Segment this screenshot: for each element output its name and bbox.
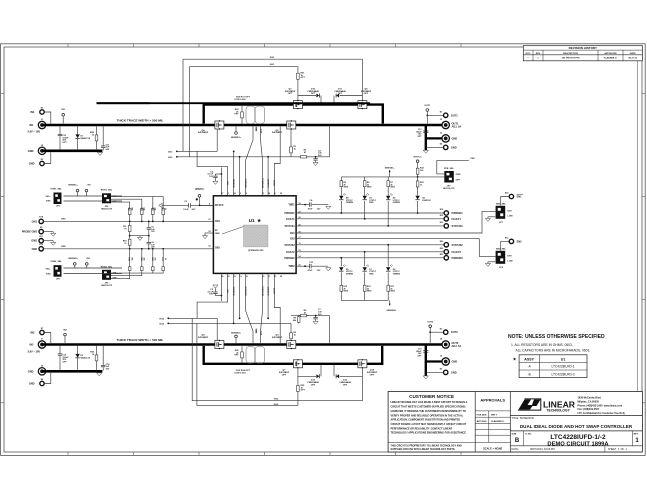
wires JP4 to ladder [111, 197, 163, 205]
wire JP6 lower [64, 273, 123, 275]
resistor R1B [90, 126, 98, 149]
svg-text:EN1: EN1 [290, 233, 295, 235]
labels R10 R11 OPT [234, 97, 250, 102]
pin 21 ON1 [208, 219, 220, 223]
sense resistor R24s (stadium) [255, 346, 265, 363]
wire IN2 pin fan [197, 273, 228, 318]
junction C2 tap [221, 295, 223, 297]
svg-text:STATUS1: STATUS1 [452, 224, 464, 228]
test point IN2 left [86, 258, 91, 268]
svg-text:-B: -B [528, 372, 531, 376]
svg-text:Milpitas, CA 95035: Milpitas, CA 95035 [578, 400, 600, 403]
svg-text:B: B [515, 438, 520, 444]
test point SENSE2+ left [68, 258, 78, 268]
resistor R4 47 [298, 309, 309, 317]
terminal E7 IN2 [30, 328, 44, 335]
drawing frame inner border [4, 47, 642, 452]
svg-text:SENSE1+: SENSE1+ [262, 177, 264, 188]
svg-text:INTVCC: INTVCC [215, 205, 224, 207]
resistor R22 OPT [234, 106, 243, 124]
svg-text:08/07/2013, 04:06 PM: 08/07/2013, 04:06 PM [530, 448, 555, 451]
svg-text:PFB_SEL: PFB_SEL [444, 168, 455, 170]
svg-text:DG1: DG1 [270, 57, 275, 59]
svg-text:DATE: DATE [630, 52, 636, 55]
stub D11 anode to rail [333, 96, 335, 104]
svg-text:PCB DES.: PCB DES. [477, 414, 488, 416]
svg-text:EXT: EXT [508, 255, 513, 257]
resistor R17 90k ladder1 [128, 205, 133, 222]
svg-text:SENSE2+: SENSE2+ [387, 310, 398, 312]
svg-text:R12: R12 [161, 207, 163, 210]
U1 top pin numbers [221, 177, 283, 194]
svg-text:50V: 50V [192, 209, 196, 211]
svg-text:FAULT2: FAULT2 [286, 251, 295, 254]
svg-text:SENSE2+: SENSE2+ [231, 332, 242, 334]
svg-text:THICK TRACE WIDTH > 500 MIL: THICK TRACE WIDTH > 500 MIL [117, 338, 164, 342]
svg-text:R15: R15 [151, 207, 153, 210]
svg-text:08-27-13: 08-27-13 [628, 58, 638, 60]
svg-text:SiR158DP: SiR158DP [272, 132, 283, 134]
wire STATUS1 [296, 225, 444, 227]
ground JP2 [485, 262, 495, 267]
capacitor C12 OUT1 [416, 129, 429, 138]
capacitor C9 0.1uF [208, 171, 222, 184]
terminal J1 IN1 [29, 119, 45, 129]
U1 pad diagonal pointer [222, 227, 244, 235]
terminal E18 ON1 [32, 217, 44, 224]
svg-text:PERFORMANCE OR RELIABILITY. C: PERFORMANCE OR RELIABILITY. CONTACT LINE… [391, 427, 453, 430]
wire IN1 pin fan [197, 151, 228, 195]
svg-text:ON2: ON2 [32, 247, 38, 251]
svg-text:SMAJ17A: SMAJ17A [80, 357, 90, 360]
wire SENSE2- pin [246, 273, 253, 343]
svg-text:FAULT1: FAULT1 [286, 218, 295, 221]
svg-text:EN1_SEL: EN1_SEL [496, 203, 506, 205]
test point OUT1 [424, 105, 431, 116]
resistor R14 10k [414, 157, 425, 178]
terminal E14 EN1 [505, 192, 523, 199]
label HG1 left [168, 156, 291, 159]
ground EP pin [202, 233, 207, 239]
terminal E21 PWRGD2 [440, 254, 464, 260]
wire HGATE1 pin [267, 157, 269, 196]
resistor R23 1k [416, 177, 424, 191]
svg-text:IN1: IN1 [30, 110, 35, 114]
op-amp U1 body [213, 196, 296, 274]
svg-text:SENSE1+: SENSE1+ [68, 184, 78, 186]
svg-text:REV.: REV. [634, 433, 639, 435]
svg-text:R16: R16 [140, 207, 142, 210]
wire TMR2 [296, 265, 309, 267]
svg-text:APP ENG.: APP ENG. [477, 420, 488, 423]
svg-text:DUAL IDEAL DIODE AND HOT SWAP: DUAL IDEAL DIODE AND HOT SWAP CONTROLLER [520, 424, 633, 429]
capacitor C10 47nF TMR2 [308, 262, 331, 272]
svg-text:HG1: HG1 [168, 157, 173, 159]
svg-text:GND: GND [215, 233, 220, 235]
ground JP1 [485, 217, 495, 222]
diode D2 SMAJ17A [75, 346, 90, 370]
svg-text:EN2: EN2 [517, 239, 523, 243]
wire HG2 to R4 node [291, 315, 330, 317]
svg-text:OPT: OPT [234, 114, 239, 116]
svg-text:SiR158DP: SiR158DP [198, 337, 209, 339]
node SENSE1+ LED bus [341, 167, 417, 177]
svg-text:OFF: OFF [456, 180, 461, 182]
test point OUT2 [427, 321, 434, 333]
svg-text:DESCRIPTION: DESCRIPTION [563, 53, 578, 55]
wire E7 to thick trace 2 [44, 333, 51, 344]
svg-text:R20: R20 [140, 257, 142, 260]
svg-text:QFN38UFD-4X5: QFN38UFD-4X5 [248, 249, 264, 252]
svg-text:LINEAR TECHNOLOGY HAS MADE A B: LINEAR TECHNOLOGY HAS MADE A BEST EFFORT… [391, 401, 468, 404]
svg-text:THIS CIRCUIT IS PROPRIETARY TO: THIS CIRCUIT IS PROPRIETARY TO LINEAR TE… [391, 444, 463, 447]
svg-text:SENSE1+: SENSE1+ [231, 137, 242, 139]
svg-text:LTC4228IUFD-1/-2: LTC4228IUFD-1/-2 [550, 434, 606, 441]
terminal J8 GND [28, 366, 46, 375]
resistor R7 2k [387, 177, 396, 191]
ground PROBE GND [43, 232, 56, 237]
right margin column line [637, 61, 639, 392]
svg-text:STATUS2: STATUS2 [284, 244, 295, 247]
svg-text:SMAJ17A: SMAJ17A [80, 137, 90, 140]
node SENSE2+ LED bus [341, 300, 397, 312]
wire SENSE1a pin [239, 156, 241, 196]
customer notice block [388, 394, 475, 451]
svg-text:INTVCC: INTVCC [414, 157, 423, 159]
revision history table [523, 46, 642, 61]
svg-text:HD2X3-079: HD2X3-079 [101, 285, 113, 287]
terminal E20 FAULT2 [440, 248, 462, 254]
svg-text:GND: GND [29, 382, 35, 386]
label DG2 left [160, 323, 292, 326]
wire CPO2 pin [220, 273, 222, 301]
transistor Q9 SiR158DP [272, 335, 296, 350]
wire HGATE2 pin [267, 273, 269, 318]
resistor R30 1k [90, 346, 98, 370]
resistor R20b 43k ladder2 [140, 248, 146, 271]
svg-text:R17: R17 [128, 207, 130, 210]
svg-text:DG2: DG2 [160, 323, 165, 325]
svg-text:EN1: EN1 [517, 195, 523, 199]
svg-text:GND: GND [28, 149, 34, 153]
svg-text:OUT2: OUT2 [427, 321, 434, 323]
svg-text:CIRCUIT THAT MEETS CUSTOMER-S: CIRCUIT THAT MEETS CUSTOMER-SUPPLIED SPE… [391, 406, 466, 409]
resistor R13 1k ladder2 [161, 248, 166, 271]
capacitor C13 [58, 126, 69, 149]
title block outline [388, 392, 642, 453]
svg-text:Fax: (408)434-0507: Fax: (408)434-0507 [578, 408, 600, 411]
svg-text:REV: REV [536, 53, 541, 55]
Linear Technology logo [518, 399, 576, 413]
wire E13 to JP2 [501, 241, 510, 250]
svg-text:SENSE1-: SENSE1- [246, 178, 248, 188]
svg-text:OUT2: OUT2 [451, 330, 458, 334]
wire CPO1 pin [220, 168, 222, 196]
svg-text:INTVCC: INTVCC [195, 188, 204, 191]
svg-text:U1 ★: U1 ★ [249, 218, 262, 223]
ground OUT1 rail [423, 150, 428, 153]
capacitor C11 [97, 103, 150, 151]
svg-text:SiR158DP: SiR158DP [198, 132, 209, 134]
label HG2 left [160, 317, 218, 320]
terminal E8 GND [29, 379, 44, 386]
svg-text:FAULT2: FAULT2 [452, 250, 462, 254]
svg-text:ON2: ON2 [61, 246, 66, 248]
svg-text:VS2+: VS2+ [45, 269, 51, 271]
svg-text:TMR2: TMR2 [288, 266, 295, 268]
jumper JP1 EN1_SEL [496, 203, 514, 224]
thick upper OPT rail ch1 [204, 105, 383, 124]
svg-text:TMR1: TMR1 [288, 205, 295, 207]
ground at input gnd bus ch1 [97, 152, 102, 155]
resistor R11 7k [123, 221, 131, 235]
jumper JP3 VON1_SEL [45, 189, 62, 208]
svg-text:VS1+: VS1+ [45, 196, 51, 198]
terminal J2 OUT1 ADJ 5A [440, 119, 462, 129]
terminal J7 IN2 [29, 339, 45, 348]
svg-text:STATUS2: STATUS2 [452, 243, 464, 247]
svg-text:ON1: ON1 [61, 219, 66, 221]
capacitor C4 47nF TMR1 [308, 199, 331, 210]
transistor Q7 SiR158DP OPT [279, 359, 303, 376]
jumper JP4 RON1_SEL [101, 190, 118, 211]
resistor R21 1k OPT [297, 71, 306, 101]
diode D11 CMHD4448 OPT [334, 88, 362, 97]
resistor R12 1k ladder1 [161, 205, 166, 222]
wire SENSE1- pin [246, 126, 253, 195]
svg-text:2.9V – 18V: 2.9V – 18V [27, 349, 40, 353]
diode D10 CMHD4448 OPT [298, 88, 320, 97]
svg-text:SIZE: SIZE [512, 433, 517, 435]
svg-text:PWRGD2: PWRGD2 [452, 256, 464, 260]
terminal E11 FAULT1 [440, 215, 462, 221]
wire OUT1 pin [274, 126, 280, 195]
svg-text:PROBE GND: PROBE GND [22, 231, 37, 234]
svg-text:OUT1: OUT1 [451, 113, 458, 117]
svg-text:DGATE1: DGATE1 [233, 178, 236, 187]
svg-text:GREEN: GREEN [346, 273, 354, 275]
svg-text:OUT1: OUT1 [424, 105, 431, 107]
capacitor C5 1uF [147, 221, 156, 236]
svg-text:2.9V – 18V: 2.9V – 18V [27, 130, 40, 134]
test point SENSE1+ ch1 [231, 126, 242, 138]
wire Q8 gate [216, 318, 218, 340]
sense resistor R13s (stadium) [246, 346, 255, 363]
resistor R18 7k [123, 236, 131, 249]
svg-text:MW T.: MW T. [491, 414, 498, 416]
test point IN1 left [85, 184, 91, 196]
svg-text:50V: 50V [318, 314, 322, 316]
svg-text:47nF: 47nF [308, 207, 314, 210]
svg-text:OPT: OPT [62, 361, 67, 363]
diode D12 CMHD4448 OPT [298, 374, 320, 386]
svg-text:CN2: CN2 [470, 158, 475, 160]
junction HGATE2-HG2 [267, 317, 269, 319]
svg-text:SENSE1+: SENSE1+ [385, 167, 396, 169]
svg-text:HG2: HG2 [274, 399, 279, 401]
U1 bottom pin numbers [221, 276, 283, 296]
svg-text:ALL CAPACITORS ARE IN MICROFAR: ALL CAPACITORS ARE IN MICROFARADS, 0603. [516, 349, 591, 353]
logo address text [578, 397, 626, 415]
transistor Q8 SiR158DP [198, 335, 224, 350]
wire OUT1 tp to E1 [427, 114, 443, 116]
terminal J6 GND [440, 356, 457, 365]
net DG2 bottom run long [197, 323, 298, 405]
test point IN1 [61, 109, 65, 123]
wire OUT2 junction [429, 332, 431, 343]
resistor R15 2k [340, 282, 349, 301]
wire DGATE2 pin [233, 273, 235, 323]
terminal J4 OUT2 ADJ 5A [440, 337, 462, 348]
sense resistor R11 (stadium) [255, 106, 265, 124]
svg-text:0.5W 0.003: 0.5W 0.003 [234, 372, 246, 374]
diode D13 CMHD4448 OPT [336, 374, 362, 386]
svg-text:GND: GND [452, 360, 458, 364]
junction HGATE1-HG1 [267, 156, 269, 158]
terminal E4 GND [440, 142, 457, 149]
terminal E1 OUT1 [440, 111, 459, 117]
terminal E3 OUT2 [440, 328, 459, 334]
svg-text:HOWEVER, IT REMAINS THE CUSTO: HOWEVER, IT REMAINS THE CUSTOMER'S RESPO… [391, 410, 466, 413]
svg-text:SENSE2+: SENSE2+ [68, 258, 78, 260]
svg-text:CIRCUIT BOARD LAYOUT MAY SIGNI: CIRCUIT BOARD LAYOUT MAY SIGNIFICANTLY A… [391, 423, 467, 426]
net HG2 bottom run long [192, 318, 362, 400]
net HG1 top run [190, 64, 298, 157]
wire SENSE1+ pin [261, 126, 263, 195]
svg-text:50V: 50V [318, 155, 322, 157]
svg-text:0.5W 0.003: 0.5W 0.003 [234, 99, 246, 101]
wire to E6 GND [426, 371, 444, 373]
stub D12 cathode to rail [320, 365, 322, 376]
svg-text:R21: R21 [151, 257, 153, 260]
wire SENSE2a pin [239, 273, 241, 319]
capacitor C2 0.1uF [208, 285, 222, 296]
pin 16 ON2 [208, 246, 220, 250]
svg-text:PWRGD1: PWRGD1 [452, 211, 464, 215]
terminal E10 PWRGD1 [440, 209, 464, 215]
terminal E6 GND [440, 369, 457, 375]
svg-text:TITLE: SCHEMATIC: TITLE: SCHEMATIC [512, 417, 535, 420]
svg-text:RED: RED [369, 273, 374, 275]
terminal E9b PROBE GND [22, 227, 44, 234]
wire Q6 gate with R1 [290, 129, 297, 157]
label R20 sense value ch1 [255, 127, 258, 133]
jumper JP6 VON2_SEL [45, 261, 62, 280]
labels R13 R24 OPT [234, 369, 250, 375]
wire LED bus to JP7 [418, 176, 445, 178]
svg-text:OPT: OPT [364, 93, 369, 95]
jumper JP5 RON2_SEL [101, 266, 118, 287]
resistor R2 47 [298, 150, 309, 158]
svg-text:LTC Confidential-For Customer: LTC Confidential-For Customer Use Only [578, 412, 626, 415]
wire E14 to JP1 [501, 197, 510, 206]
capacitor C16 OUT2 [416, 349, 429, 358]
LED D9 LTST-C GREEN [339, 257, 353, 282]
svg-text:PWRGD2: PWRGD2 [285, 258, 296, 260]
svg-text:47nF: 47nF [308, 269, 314, 272]
resistor R6 2k [363, 177, 372, 191]
sense resistor R10 (stadium) [246, 106, 255, 124]
wire E2 to gnd bus [44, 152, 51, 163]
mid node gnd wire [129, 235, 150, 241]
svg-text:16V: 16V [209, 176, 213, 178]
svg-text:OPT: OPT [338, 93, 343, 95]
svg-text:EXT: EXT [508, 210, 513, 212]
thick gnd bus ch2 [42, 370, 102, 373]
jumper JP7 PFB_SEL [443, 168, 461, 190]
terminal E11b GND [31, 236, 44, 243]
svg-text:APPROVED: APPROVED [604, 52, 617, 55]
thick trace IN2 rail [42, 343, 442, 346]
junction DGATE1-DG1 [233, 151, 235, 153]
transistor Q5 SiR158DP OPT [358, 88, 372, 109]
svg-text:OPT: OPT [343, 384, 348, 386]
LED D6 LTST-C GREEN [386, 244, 400, 282]
wire PWRGD1 [296, 212, 444, 214]
svg-text:CUSTOMER NOTICE: CUSTOMER NOTICE [409, 394, 454, 399]
svg-text:ON1: ON1 [215, 221, 220, 223]
svg-text:GND: GND [456, 174, 461, 176]
wire FAULT1 [296, 218, 444, 220]
wire C7 node to thick trace 2 [329, 316, 331, 344]
wire E5 to thick trace [44, 112, 51, 124]
net DG1 top run [183, 57, 362, 152]
svg-text:STATUS1: STATUS1 [284, 225, 295, 228]
svg-text:OPT: OPT [282, 374, 287, 376]
svg-text:OPT: OPT [311, 384, 316, 386]
svg-text:50V: 50V [106, 369, 110, 371]
thick wire to J6 GND [426, 360, 442, 362]
resistor R25r 1k OPT [297, 368, 306, 394]
wire EN1 to JP1 [296, 211, 496, 233]
svg-text:LTC4228IUFD-1: LTC4228IUFD-1 [552, 365, 575, 369]
wires JP5 to ladder2 [111, 271, 163, 278]
svg-text:ON1: ON1 [32, 219, 38, 223]
thick wire to J3 GND [426, 137, 442, 139]
svg-text:RED: RED [369, 202, 374, 204]
svg-text:EN2: EN2 [290, 239, 295, 241]
LED D5 LTST-C GREEN [339, 191, 353, 214]
test point SENSE2+ ch2 [231, 332, 242, 343]
svg-text:OPT: OPT [62, 142, 67, 144]
svg-text:GREEN: GREEN [346, 202, 354, 204]
junction C9 tap [221, 173, 223, 175]
test point INTVCC ch1 [195, 188, 204, 206]
svg-text:ASSY: ASSY [524, 357, 534, 361]
capacitor C15 [58, 346, 69, 370]
svg-text:IN2: IN2 [29, 343, 34, 347]
svg-text:DG1: DG1 [168, 151, 173, 153]
svg-text:VON1_SEL: VON1_SEL [50, 189, 62, 191]
capacitor C4 1nF [313, 149, 322, 165]
wire OUT2 tp to E3 [430, 331, 443, 333]
svg-text:NOTE: UNLESS OTHERWISE SPECIFI: NOTE: UNLESS OTHERWISE SPECIFIED [508, 334, 605, 340]
wire E8 to gnd bus 2 [44, 373, 51, 384]
U1 right pin names [284, 203, 301, 268]
svg-text:SHEET 1 OF 1: SHEET 1 OF 1 [608, 448, 627, 451]
wire DGATE1 pin [233, 151, 235, 195]
svg-text:OUT1: OUT1 [274, 179, 276, 186]
wire Q9 gate with R3 [290, 323, 297, 340]
wire ON1 [43, 219, 213, 222]
svg-text:GREEN: GREEN [393, 273, 401, 275]
terminal J5 GND [28, 145, 46, 155]
svg-text:THICK TRACE WIDTH > 500 MIL: THICK TRACE WIDTH > 500 MIL [117, 119, 164, 123]
svg-text:REVISION HISTORY: REVISION HISTORY [569, 46, 597, 50]
svg-text:16V: 16V [209, 294, 213, 296]
assembly table [512, 355, 587, 378]
capacitor C3 0.1uF [159, 201, 214, 211]
